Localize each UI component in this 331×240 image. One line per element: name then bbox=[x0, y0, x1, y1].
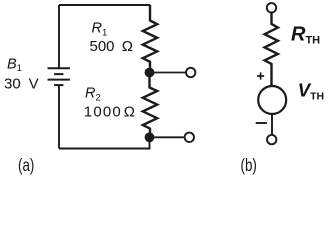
svg-text:1000Ω: 1000Ω bbox=[84, 103, 135, 120]
node A (junction dot upper) bbox=[145, 68, 155, 78]
battery B1 bbox=[48, 68, 70, 85]
resistor R1 bbox=[143, 5, 157, 73]
svg-text:(a): (a) bbox=[18, 155, 34, 175]
svg-text:500Ω: 500Ω bbox=[90, 38, 134, 55]
terminal upper (circuit b) bbox=[267, 3, 276, 12]
source VTH bbox=[258, 86, 286, 114]
wire top (circuit a) bbox=[59, 4, 150, 6]
wire VTH to bottom terminal bbox=[271, 115, 273, 135]
resistor R2 bbox=[143, 77, 157, 133]
terminal upper (circuit a) bbox=[186, 68, 195, 77]
node B (junction dot lower) bbox=[145, 132, 155, 142]
wire left lower (battery bottom lead) bbox=[58, 86, 60, 149]
resistor RTH bbox=[265, 13, 278, 86]
terminal lower (circuit a) bbox=[185, 133, 194, 142]
plus sign bbox=[257, 72, 264, 79]
minus sign bbox=[256, 122, 267, 124]
wire node A to terminal bbox=[154, 72, 185, 74]
terminal lower (circuit b) bbox=[267, 135, 276, 144]
wire left upper (battery top lead) bbox=[58, 5, 60, 68]
wire bottom (circuit a) bbox=[59, 142, 150, 149]
wire node B to terminal bbox=[154, 136, 184, 138]
svg-text:(b): (b) bbox=[241, 155, 257, 175]
